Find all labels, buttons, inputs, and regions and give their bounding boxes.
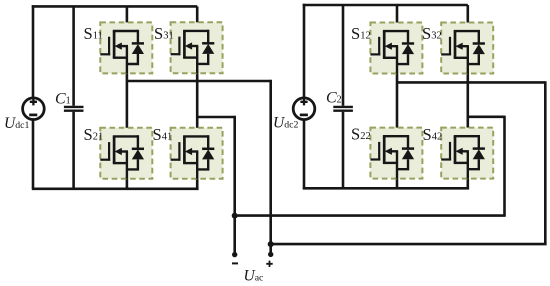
wire: left bridge bottom rail <box>32 188 199 191</box>
junction dot on plus bus <box>268 241 274 247</box>
wire: left bridge left rail upper <box>32 5 35 98</box>
plus sign inside U_dc1 <box>30 98 37 105</box>
capacitor C2 bottom wire <box>342 112 345 189</box>
wire: right bridge top rail <box>303 4 468 7</box>
capacitor C1 plates <box>64 107 84 111</box>
wire: vertical to minus terminal <box>233 116 236 255</box>
svg-text:S12: S12 <box>351 24 371 43</box>
mosfet S31 <box>171 22 223 73</box>
dc source U_dc1 circle <box>23 98 45 120</box>
minus terminal dot <box>232 252 237 257</box>
junction dot on minus bus <box>232 213 238 219</box>
svg-text:S32: S32 <box>422 24 442 43</box>
mosfet S12 <box>370 23 422 74</box>
svg-text:S11: S11 <box>84 24 103 43</box>
wire: right inner vertical minus side <box>503 116 506 216</box>
svg-text:C1: C1 <box>55 90 71 107</box>
svg-text:Uac: Uac <box>244 267 265 284</box>
dc source U_dc2 circle <box>293 98 315 120</box>
wire: leg D middle segment <box>466 46 469 136</box>
wire: right outer vertical plus side <box>544 81 547 244</box>
wire: leg A bottom segment <box>126 152 129 189</box>
wire: left bridge top rail <box>32 5 197 8</box>
mosfet S41 <box>171 128 223 179</box>
capacitor C1 top wire <box>72 6 75 105</box>
wire: leg C drain segment <box>396 5 399 31</box>
svg-text:S22: S22 <box>351 125 371 144</box>
wire: right leg C midpoint tap <box>397 81 545 84</box>
wire: leg B drain segment <box>196 6 199 31</box>
mosfet S32 <box>441 23 493 74</box>
svg-text:Udc2: Udc2 <box>273 115 298 132</box>
mosfet S21 <box>100 128 152 179</box>
plus terminal dot <box>268 252 273 257</box>
plus sign inside U_dc2 <box>300 98 307 105</box>
mosfet S22 <box>370 128 422 179</box>
wire: leg C middle segment <box>396 46 399 136</box>
wire: right bridge left rail upper <box>303 4 306 98</box>
capacitor C2 top wire <box>342 5 345 106</box>
svg-text:S42: S42 <box>423 125 443 144</box>
wire: left leg B midpoint tap <box>197 116 235 119</box>
wire: leg A middle segment <box>126 46 129 136</box>
wire: right bridge left rail lower <box>303 119 306 188</box>
wire: leg C bottom segment <box>396 151 399 188</box>
wire: minus bus horizontal <box>235 214 506 217</box>
svg-text:C2: C2 <box>326 89 342 106</box>
wire: leg B middle segment <box>196 46 199 136</box>
wire: leg A drain segment <box>126 6 129 31</box>
mosfet S11 <box>100 22 152 73</box>
wire: left bridge left rail lower <box>32 119 35 189</box>
minus sign inside U_dc1 <box>29 114 37 117</box>
wire: right leg D midpoint tap <box>468 116 505 119</box>
wire: vertical to plus terminal <box>269 80 272 255</box>
wire: right bridge bottom rail <box>303 187 469 190</box>
svg-text:S41: S41 <box>153 125 173 144</box>
capacitor C2 plates <box>333 107 353 111</box>
capacitor C1 bottom wire <box>72 112 75 189</box>
wire: left leg A midpoint tap <box>128 80 271 83</box>
minus terminal sign <box>232 262 238 264</box>
plus terminal sign <box>266 261 272 267</box>
minus sign inside U_dc2 <box>300 114 308 117</box>
wire: plus bus horizontal <box>271 243 547 246</box>
wire: leg B bottom segment <box>196 152 199 189</box>
wire: leg D bottom segment <box>466 151 469 188</box>
wire: leg D drain segment <box>466 5 469 31</box>
mosfet S42 <box>441 128 493 179</box>
